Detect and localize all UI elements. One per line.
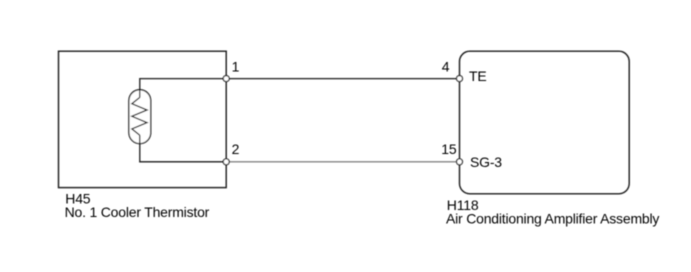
svg-text:No. 1 Cooler Thermistor: No. 1 Cooler Thermistor <box>65 204 210 220</box>
thermistor R1 zigzag element <box>132 97 147 135</box>
wire node 2 to pin 15 (SG-3), gray <box>226 161 459 163</box>
pin 4 terminal circle <box>457 76 463 82</box>
svg-text:1: 1 <box>232 58 240 74</box>
svg-text:TE: TE <box>469 68 487 84</box>
svg-text:SG-3: SG-3 <box>470 154 502 170</box>
svg-text:Air Conditioning Amplifier Ass: Air Conditioning Amplifier Assembly <box>446 211 659 227</box>
thermistor R1 body (capsule) <box>129 90 151 144</box>
wire node 1 to pin 4 (TE) <box>226 78 459 80</box>
node 1 (terminal circle) <box>223 76 229 82</box>
svg-text:2: 2 <box>232 141 240 157</box>
svg-text:15: 15 <box>441 141 457 157</box>
wire: thermistor top lead to node 1 <box>140 79 226 98</box>
pin 15 terminal circle <box>457 159 463 165</box>
node 2 (terminal circle) <box>223 159 229 165</box>
amplifier box H118 (rounded) <box>460 51 630 194</box>
connector box H45 (No. 1 Cooler Thermistor) <box>59 51 227 187</box>
svg-text:4: 4 <box>442 58 450 74</box>
wire: thermistor bottom lead to node 2 <box>140 135 226 162</box>
